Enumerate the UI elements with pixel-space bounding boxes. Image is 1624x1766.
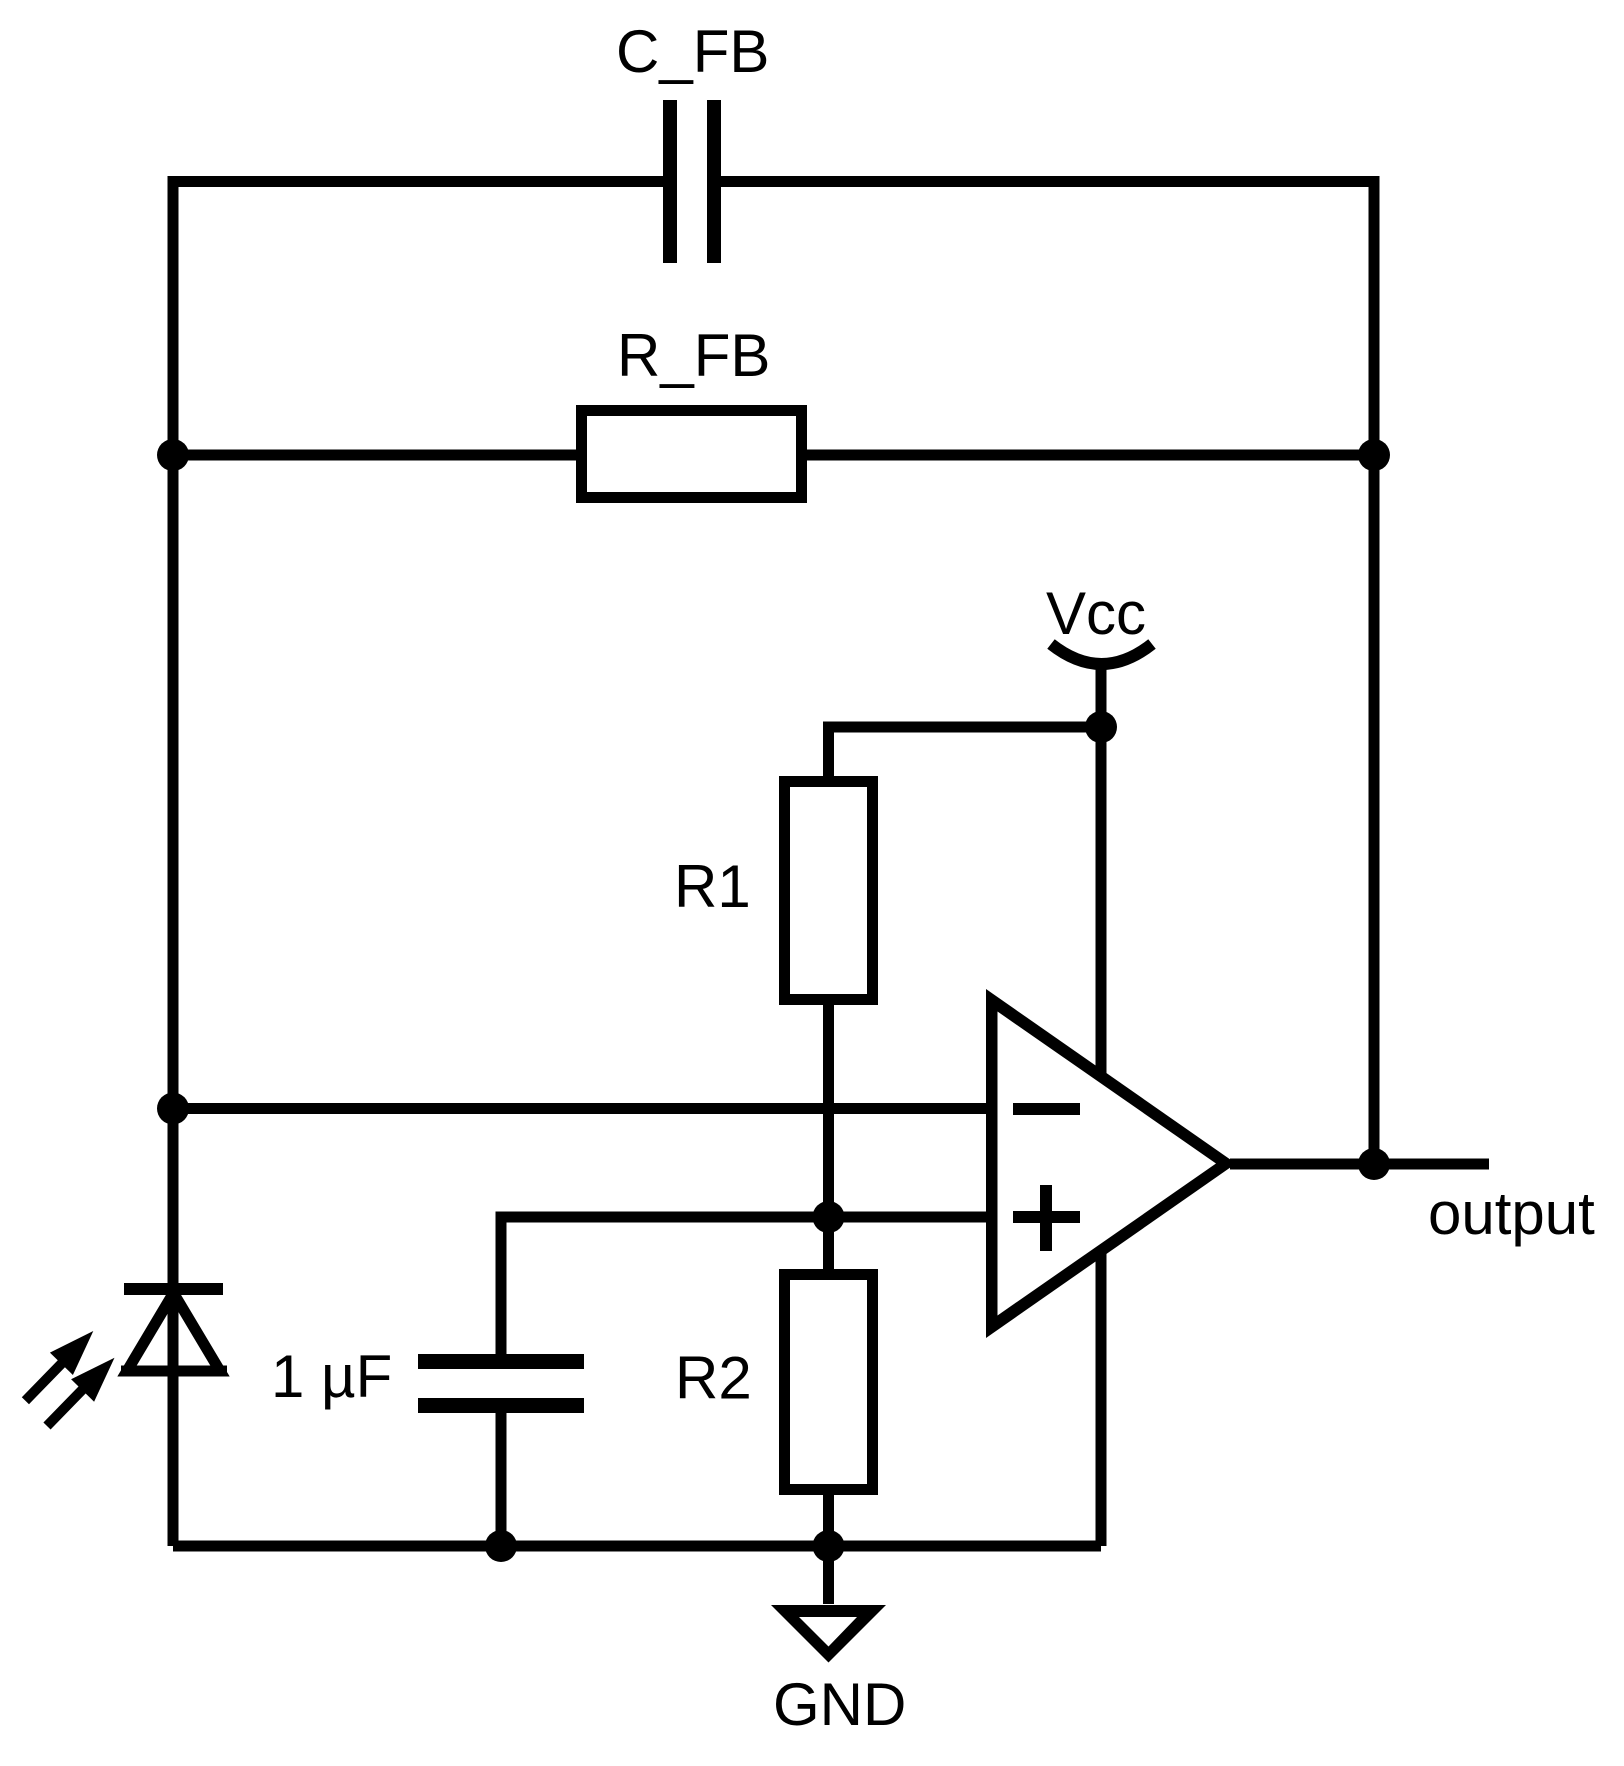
svg-text:C_FB: C_FB [616, 18, 769, 85]
wire capacitor C1 bottom stub [496, 1413, 507, 1546]
wire top rail left segment [173, 182, 663, 188]
photodiode D1 [25, 1283, 227, 1426]
resistor R2 [675, 1275, 873, 1490]
wire R1 top [829, 727, 1102, 776]
ground [771, 1605, 906, 1738]
wire Vcc down rail [1096, 727, 1107, 1546]
svg-text:R_FB: R_FB [617, 322, 770, 389]
wire Vcc stub [1096, 662, 1107, 727]
wire bottom rail [173, 1541, 1101, 1552]
wire R1 bottom [823, 1005, 834, 1217]
node feedback right [1358, 439, 1390, 471]
node feedback left [157, 439, 189, 471]
wire non-inverting input [501, 1217, 1000, 1354]
op-amp U1 [986, 989, 1236, 1338]
resistor R1 [674, 782, 873, 1000]
svg-text:R1: R1 [674, 853, 751, 920]
power Vcc [1046, 580, 1152, 664]
svg-text:Vcc: Vcc [1046, 580, 1146, 647]
node non-inverting junction [813, 1201, 845, 1233]
capacitor C_FB [616, 18, 769, 263]
svg-text:1 µF: 1 µF [271, 1343, 392, 1410]
node capacitor bottom [485, 1530, 517, 1562]
capacitor C1 1uF [271, 1343, 584, 1413]
wire R2 bottom stub [823, 1495, 834, 1546]
node Vcc junction [1085, 711, 1117, 743]
svg-text:output: output [1428, 1180, 1595, 1247]
svg-text:R2: R2 [675, 1345, 752, 1412]
wire R2 top stub [823, 1217, 834, 1269]
wire left rail [168, 182, 179, 1547]
wire top rail right segment [721, 182, 1374, 188]
wire inverting input [173, 1103, 1000, 1114]
wire feedback rail left [173, 450, 576, 461]
node inverting input [157, 1093, 189, 1125]
node output [1358, 1148, 1390, 1180]
light arrow 2 [47, 1358, 115, 1426]
node R2 bottom [813, 1530, 845, 1562]
resistor R_FB [582, 322, 802, 498]
wire ground stub [823, 1546, 834, 1604]
light arrow 1 [25, 1331, 93, 1401]
wire feedback rail right [807, 450, 1374, 461]
svg-text:GND: GND [773, 1671, 906, 1738]
wire right rail [1369, 182, 1380, 1165]
wire output [1230, 1159, 1489, 1170]
